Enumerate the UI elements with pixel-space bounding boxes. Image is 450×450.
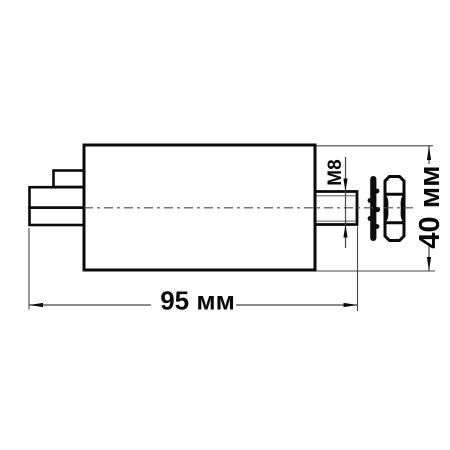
terminal tab (upper) <box>54 171 85 188</box>
svg-text:95 мм: 95 мм <box>160 286 235 316</box>
dimension line 95mm <box>29 304 151 306</box>
stud thread minor lines <box>317 195 356 197</box>
arrow M8 top <box>343 179 347 192</box>
arrow 40 bottom <box>427 257 431 271</box>
terminal block (lower) <box>30 187 85 225</box>
M8 stud outline <box>315 192 357 225</box>
svg-text:40 мм: 40 мм <box>414 165 446 248</box>
arrow 40 top <box>427 146 431 160</box>
arrow 95 left <box>29 303 43 307</box>
arrow M8 bottom <box>343 225 347 238</box>
dimension line M8 <box>345 157 347 248</box>
hex nut (side view) <box>385 177 404 241</box>
capacitor body C1 <box>84 145 315 270</box>
extension line top (y=145.8) <box>317 145 434 147</box>
lock washer <box>368 176 381 241</box>
extension line bottom (y=271) <box>317 270 436 272</box>
dimension line 40mm <box>428 146 430 164</box>
svg-text:M8: M8 <box>325 159 346 185</box>
arrow 95 right <box>344 303 358 307</box>
terminal block divider line <box>28 206 84 209</box>
extension line right (x=357.5) <box>357 227 359 312</box>
extension line left (x=29) <box>28 228 30 310</box>
centerline (dash-dot axis) <box>84 207 413 209</box>
